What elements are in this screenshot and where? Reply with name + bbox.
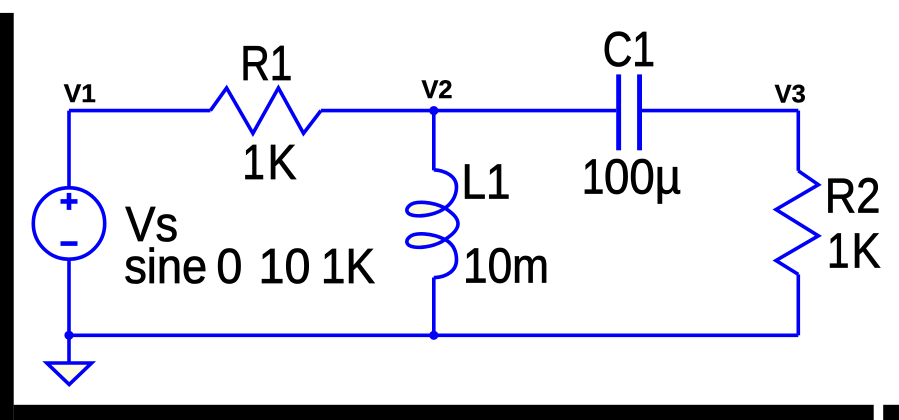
svg-text:R2: R2 [825, 170, 881, 224]
svg-text:0: 0 [216, 240, 242, 294]
svg-text:K: K [268, 136, 297, 190]
svg-text:V1: V1 [64, 80, 96, 108]
svg-text:R1: R1 [240, 37, 292, 91]
svg-text:C1: C1 [603, 23, 655, 77]
svg-text:K: K [852, 225, 881, 279]
svg-text:L1: L1 [462, 156, 511, 210]
svg-text:1: 1 [582, 151, 605, 205]
svg-text:sine: sine [124, 240, 207, 294]
svg-text:V3: V3 [775, 81, 806, 109]
svg-text:1K: 1K [321, 240, 375, 294]
svg-text:V2: V2 [422, 76, 453, 104]
svg-text:00µ: 00µ [604, 151, 681, 205]
svg-text:10m: 10m [463, 240, 549, 294]
svg-text:1: 1 [242, 136, 265, 190]
svg-text:10: 10 [259, 240, 311, 294]
svg-text:1: 1 [827, 225, 850, 279]
